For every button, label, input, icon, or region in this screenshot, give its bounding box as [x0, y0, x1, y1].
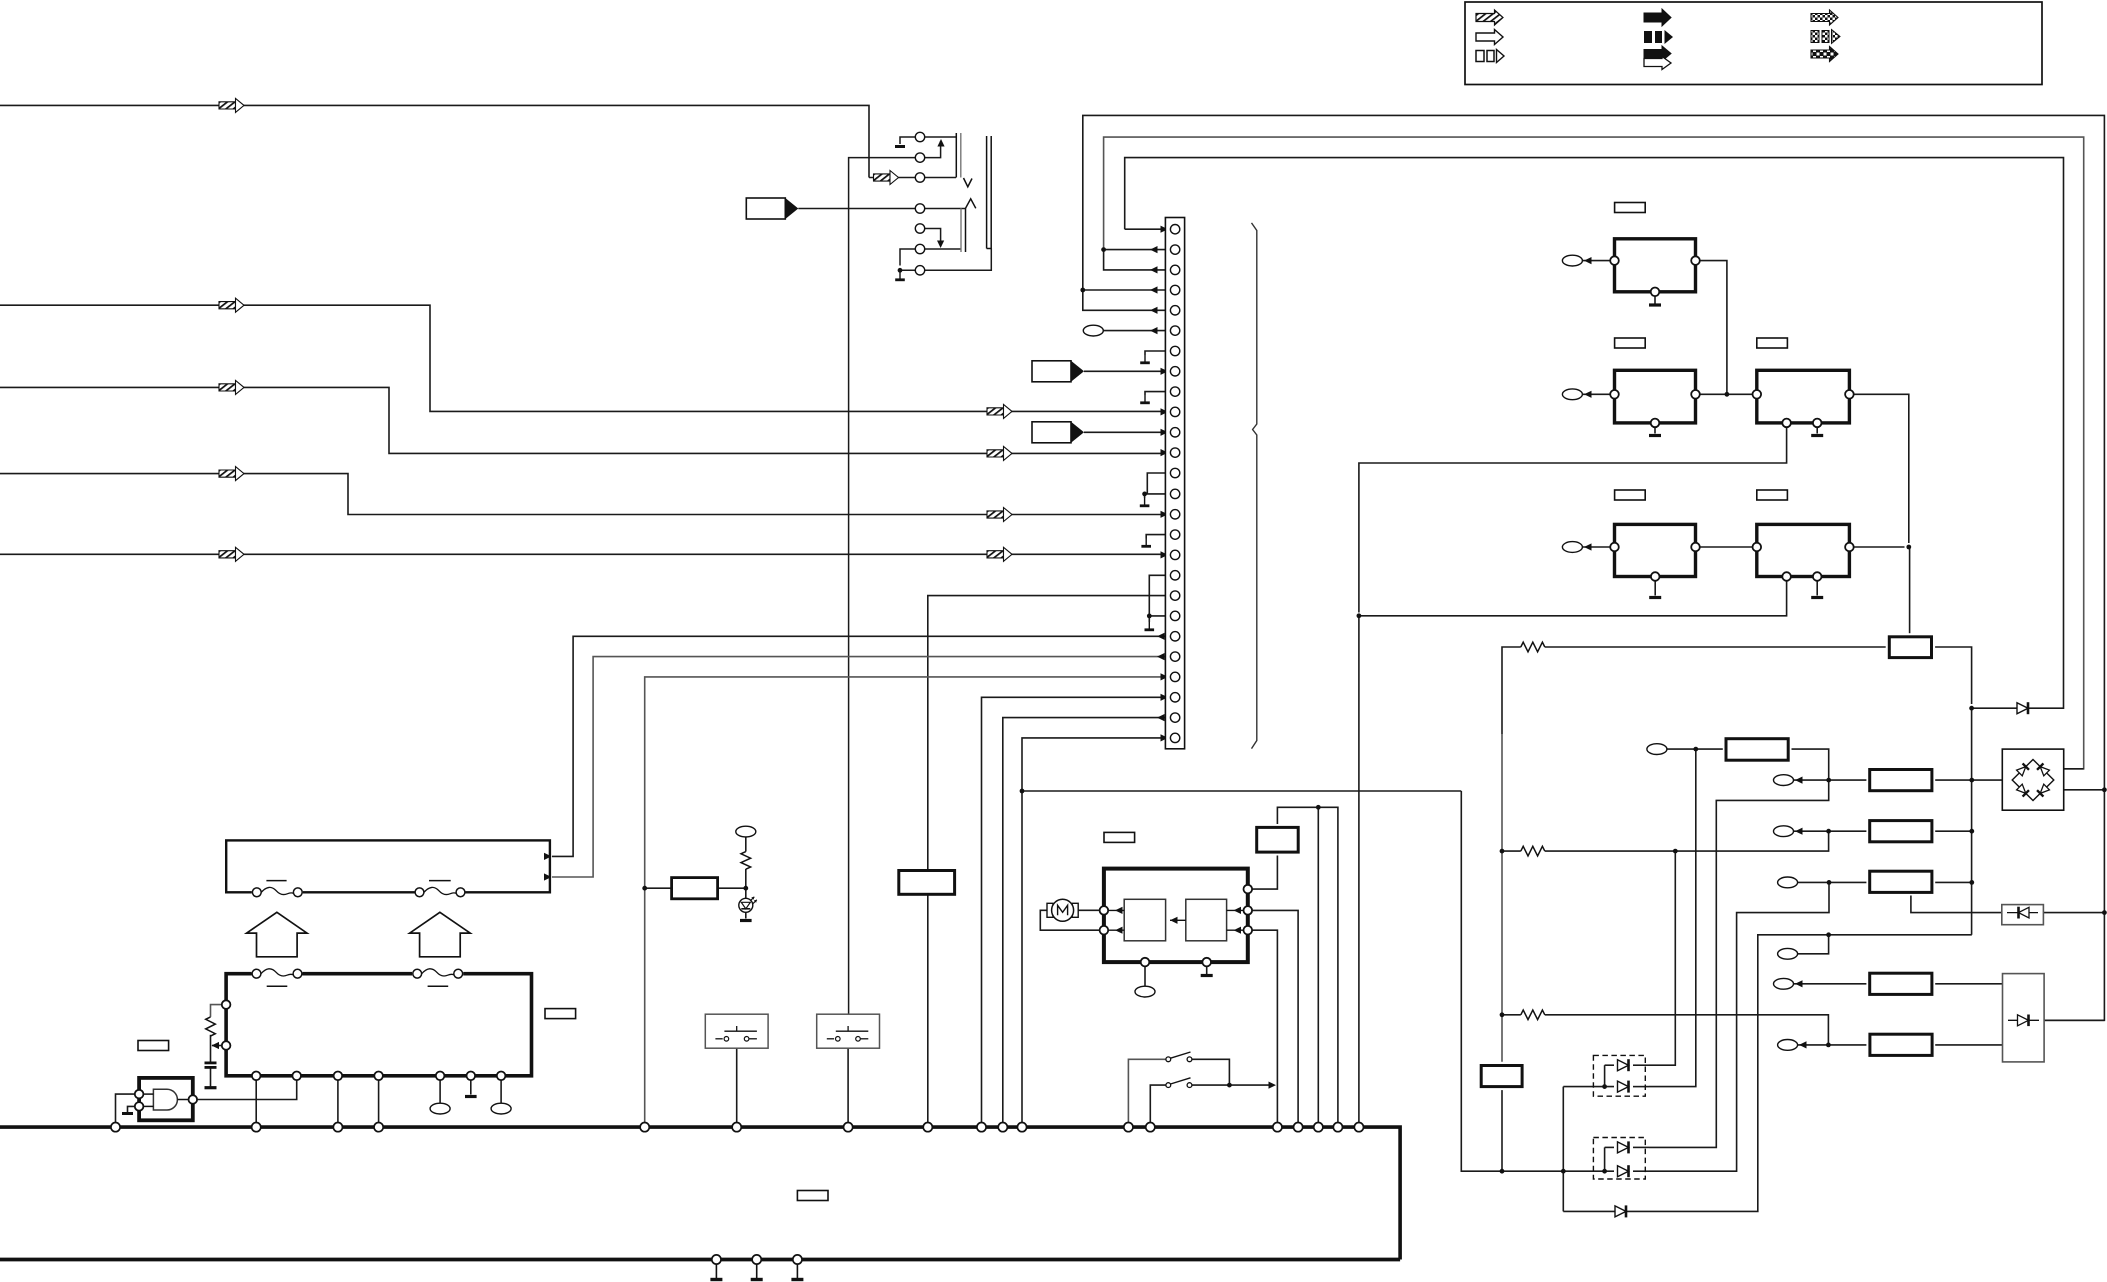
module MM inner box A [1124, 899, 1165, 941]
bridge diode top-left [2016, 763, 2029, 776]
wire node branch to bus [1317, 807, 1319, 1122]
wire pin8 from tag T1 [1084, 370, 1170, 372]
bottom edge circle 1 [712, 1255, 721, 1264]
module M2 right terminal [1691, 390, 1700, 399]
wire L2 pin1 to RC [211, 1005, 223, 1017]
fuse F2 label line [429, 880, 451, 882]
capacitor C1 plates [205, 1062, 217, 1065]
AND gate terminal in2 [135, 1102, 144, 1111]
fuse F4 label line [428, 985, 449, 987]
bridge diode top-right [2037, 763, 2050, 776]
arrow into pin17 [1161, 551, 1169, 558]
wire pin2 entry [1104, 249, 1171, 251]
wire diode D1 node vertical [1971, 708, 1973, 935]
ground stem below bottom circle 2 [756, 1264, 758, 1278]
arrow on pin22 wire [1157, 653, 1165, 660]
arrow into L1 right pin1 [544, 853, 552, 860]
diode D1 [2017, 702, 2028, 714]
wire dashed box DB1 upper diode out [1649, 851, 1675, 1065]
arrow into pin26 [1161, 734, 1169, 741]
wire S1 contact1 to bar [924, 136, 956, 138]
ground below module M1 [1649, 303, 1661, 306]
label L4 above module M4 [1615, 490, 1646, 500]
arrow into pin12 [1161, 449, 1169, 456]
S1 chevron V break [964, 178, 973, 187]
ground at pin9 [1140, 395, 1150, 403]
bus circle 4 [374, 1123, 383, 1132]
ground at pin16 [1141, 539, 1151, 547]
resistor RA [1726, 739, 1788, 761]
ground stem below bottom circle 1 [715, 1264, 717, 1278]
junction row C at 1829 [1827, 880, 1832, 885]
diode D2 bottom [1615, 1205, 1626, 1217]
bottom edge circle 2 [752, 1255, 761, 1264]
legend arrow coarse check (wire type 9) [1811, 47, 1838, 62]
diode DY inside (pointing right) [2008, 1019, 2039, 1021]
L2 bottom terminal 7 [497, 1072, 506, 1081]
S1 moving bar B [960, 208, 962, 252]
hollow up arrow UA1 [247, 912, 307, 957]
wire node bottom hook [1563, 935, 1972, 1212]
bottom board box outline [0, 1127, 1400, 1259]
arrow on pin25 wire [1157, 714, 1165, 721]
brace right of connector [1252, 223, 1257, 749]
L2 bottom terminal 5 [436, 1072, 445, 1081]
S1 contact 7 [915, 266, 924, 275]
hatch arrow on W3 [219, 380, 244, 394]
wire zigzag Z3 run [1502, 1014, 1521, 1016]
ellipse at pin6 [1083, 325, 1103, 336]
arrow on pin5 wire [1150, 307, 1158, 314]
S1 contact 5 [915, 224, 924, 233]
wire capacitor to ground [210, 1067, 212, 1086]
wire pin11 from tag T2 [1084, 431, 1170, 433]
bus circle 11 [1017, 1123, 1026, 1132]
wire pin14 to ground [1145, 494, 1171, 498]
wire L2 bottom pin3 to bus [337, 1081, 339, 1123]
bus circle 13 [1146, 1123, 1155, 1132]
resistor RM [1257, 827, 1299, 852]
junction collector at RT lead [1500, 1169, 1505, 1174]
module M1 bottom terminal [1651, 288, 1660, 297]
legend arrow fine check (wire type 7) [1811, 10, 1838, 25]
bus circle 10 [998, 1123, 1007, 1132]
legend arrow hatched (wire type 1) [1476, 10, 1503, 25]
L2 bottom terminal 4 [374, 1072, 383, 1081]
L2 bottom terminal 3 [334, 1072, 343, 1081]
diode box DBY (lower) [2003, 974, 2045, 1062]
resistor row A [1870, 770, 1932, 791]
module MM bottom terminal 2 [1202, 958, 1211, 967]
bottom board bottom edge [0, 1258, 1400, 1262]
wire row A: ellipse to resistor to bridge [1794, 779, 1867, 781]
label above motor module [1104, 832, 1135, 842]
wire module MM bottom pin2 to ground [1206, 966, 1208, 974]
fuse F2 on L1 bottom edge [415, 887, 466, 898]
bus circle 1 [111, 1123, 120, 1132]
wire gray vertical feed [1501, 734, 1503, 1062]
arrow into pin24 [1161, 694, 1169, 701]
wire module M3 out to right [1854, 394, 1909, 543]
wire pushbutton PB2 to bus [847, 1048, 849, 1122]
ellipse below L2 pin7 [491, 1103, 511, 1114]
junction pin2 wire [1101, 247, 1106, 252]
wire ellipse E2 to module M2 [1582, 393, 1610, 395]
module M1 (thick box) [1615, 239, 1696, 292]
junction toggles [1227, 1083, 1232, 1088]
wire module MM right pin3 to bus [1252, 930, 1278, 1122]
wire L2 bottom pin1 to bus [255, 1081, 257, 1123]
wire pin6 from ellipse [1103, 330, 1170, 332]
resistor RL vertical zigzag [741, 852, 751, 870]
arrow on pin2 wire [1150, 246, 1158, 253]
ellipse row B with arrow [1774, 826, 1794, 837]
wire long vertical to bus from hooks [1358, 616, 1360, 1123]
bus circle 6 [732, 1123, 741, 1132]
junction DB1 bracket [1602, 1084, 1607, 1089]
legend arrow check squares (wire type 8) [1811, 30, 1840, 44]
arrow toggle TS2 to vertical [1269, 1082, 1277, 1089]
junction hook at vertical [1357, 613, 1362, 618]
legend arrow double solid over open (wire type 6) [1644, 46, 1671, 70]
junction DB2 bracket [1602, 1169, 1607, 1174]
wire pin17 stub [1161, 554, 1171, 556]
SECTION-BOTTOMLEFT [645, 807, 1338, 1122]
wire S1 contact2 right with up arrow [924, 141, 940, 158]
SECTION-SWITCH [552, 115, 2104, 1122]
bridge rectifier BR box [2002, 749, 2063, 810]
bus circle 9 [977, 1123, 986, 1132]
module MM internal arrow between boxes [1170, 919, 1186, 921]
junction LED feed vertical [642, 886, 647, 891]
diode DB1 lower [1618, 1081, 1629, 1093]
module M4 right terminal [1691, 543, 1700, 552]
pushbutton PB2 box [817, 1014, 880, 1048]
ground at AND input2 [122, 1112, 133, 1115]
hatch arrow on W5 [219, 547, 244, 561]
label L3 above module M3 [1757, 338, 1788, 348]
wire W1 (input 1) [0, 105, 869, 177]
module M2 (thick box) [1615, 370, 1696, 423]
module MM left terminal 1 [1100, 906, 1109, 915]
module MM right terminal 3 [1244, 926, 1253, 935]
module M3 bottom terminal 2 [1813, 419, 1822, 428]
wire dashed box DB1 bracket [1604, 1065, 1606, 1086]
wire toggle TS1 right to junction [1192, 1059, 1230, 1085]
arrow into pin23 [1161, 673, 1169, 680]
ellipse EA [1647, 744, 1667, 755]
ellipse row D [1778, 948, 1798, 959]
tag flag T2 feeding pin11 [1032, 422, 1084, 443]
bus circle 7 [844, 1123, 853, 1132]
junction DBX right on far vertical [2102, 910, 2107, 915]
wire W4 (input 4) to pin15 [0, 474, 1161, 515]
resistor R LED feed [672, 878, 718, 899]
wire pin18 to ground [1149, 575, 1170, 622]
L2 left terminal 2 [222, 1041, 231, 1050]
hatch arrow into S1 contact3 [874, 171, 899, 185]
wire S1 contact1 to ground [900, 137, 916, 144]
wire module M2 ground lead [1654, 426, 1656, 433]
wire L2 bottom pin6 to ground [470, 1081, 472, 1095]
wire module M5 bottom hook [1359, 581, 1787, 616]
diode DB2 upper [1618, 1141, 1629, 1153]
label L2 above module M2 [1615, 338, 1646, 348]
ellipse below L2 pin5 [430, 1103, 450, 1114]
hatch arrow on W2 near connector [987, 404, 1012, 418]
bus circle 17 [1333, 1123, 1342, 1132]
ground below capacitor C1 [205, 1086, 217, 1089]
arrow into pin15 [1161, 511, 1169, 518]
wire pin3 entry [1104, 250, 1171, 270]
motor module MM thick box [1104, 869, 1248, 963]
wire S1 contact7 left to ground [900, 270, 916, 272]
wire RC resistor to junction [210, 1035, 212, 1062]
wire collector feed from pin26 chain [1022, 790, 1461, 792]
arrow at RC junction [212, 1042, 220, 1049]
ground below LED [740, 919, 752, 922]
down arrow at S1 contact5 [937, 241, 944, 249]
wire AND input1 to bus [116, 1094, 136, 1122]
connector CN1 body [1165, 218, 1184, 749]
wire row E: ellipse to resistor to diode box DBY [1794, 983, 1867, 985]
wire S1 contact2 left to long vertical [849, 158, 916, 1015]
junction Z2 at 1675 [1673, 849, 1678, 854]
wire zigzag Z2 run [1502, 850, 1521, 852]
hatch arrow on W4 near connector [987, 508, 1012, 522]
wire row C: ellipse to resistor [1798, 881, 1867, 883]
module M4 bottom terminal [1651, 572, 1660, 581]
label L1 above module M1 [1615, 203, 1646, 213]
wire S1 hatched arrow feed [869, 177, 874, 179]
wire LED feed resistor row [645, 887, 672, 889]
hatch arrow on W5 near connector [987, 547, 1012, 561]
bridge diode bottom-left [2016, 784, 2029, 797]
wire pin23 chain to bus [645, 677, 1171, 1123]
AND gate output stub [178, 1099, 190, 1101]
ellipse E3 with arrow [1562, 542, 1582, 553]
junction row B at 1828 [1826, 829, 1831, 834]
resistor row E [1870, 973, 1932, 994]
wire module M4 ground lead [1654, 581, 1656, 596]
fuse F3 label line [267, 985, 288, 987]
ground at S1 contact1 [895, 145, 905, 148]
legend arrow solid black (wire type 4) [1644, 9, 1671, 26]
module MM left terminal 2 [1100, 926, 1109, 935]
wire dashed box DB2 upper diode internals [1605, 1146, 1614, 1148]
legend arrow two open squares (wire type 3) [1476, 50, 1504, 63]
AND gate input stubs [143, 1093, 153, 1095]
junction RA left node [1693, 747, 1698, 752]
ground stem below bottom circle 3 [796, 1264, 798, 1278]
wire pushbutton PB1 to bus [736, 1048, 738, 1122]
diode box DBX (upper) [2002, 905, 2044, 925]
module M3 (thick box) [1757, 370, 1850, 423]
diode DB2 lower [1618, 1165, 1629, 1177]
L2 bottom terminal 6 [467, 1072, 476, 1081]
SECTION-TOPRIGHT [1022, 734, 2104, 1211]
wire L2 bottom pin5 to ellipse [439, 1081, 441, 1104]
label rect inside bottom board [797, 1191, 828, 1201]
resistor row C [1870, 871, 1932, 892]
module M4 left terminal [1610, 543, 1619, 552]
wire zigzag Z1 run [1502, 647, 1521, 734]
wire pin5 entry [1083, 290, 1171, 310]
wire L2 bottom pin2 to AND out [198, 1081, 297, 1100]
ground at S1 contact7 [895, 272, 905, 280]
diode DX inside (pointing left) [2007, 912, 2038, 914]
module M5 right terminal [1845, 543, 1854, 552]
junction LED node [743, 886, 748, 891]
module L1 (wide box) [226, 840, 550, 892]
resistor zigzag Z1 [1521, 642, 1545, 652]
bus circle 14 [1273, 1123, 1282, 1132]
module M3 right terminal [1845, 390, 1854, 399]
wire pin13 hook [1147, 473, 1170, 494]
ellipse E1 with arrow [1562, 255, 1582, 266]
LED D3 [739, 897, 757, 913]
AND gate terminal out [189, 1095, 198, 1104]
arrow into pin10 [1161, 408, 1169, 415]
wire diode box DBY right to far vertical [2044, 1019, 2104, 1021]
junction row A node [1969, 778, 1974, 783]
wire RA node vertical to dashed diode box DB1 [1649, 749, 1696, 1087]
wire module MM right pin2 to bus [1252, 910, 1298, 1122]
wire S1 contact5 with down arrow [924, 229, 940, 247]
label rect left of L2 [138, 1041, 169, 1051]
diode DB1 upper [1618, 1059, 1629, 1071]
label rect right of L2 [545, 1009, 576, 1019]
bus circle 2 [252, 1123, 261, 1132]
wire W3 (input 3) to pin12 [0, 387, 1161, 453]
wire bridge BR right top out [2064, 768, 2084, 770]
hatch arrow on W3 near connector [987, 446, 1012, 460]
junction pin20 wire [1147, 614, 1152, 619]
ground below module M5 [1811, 596, 1823, 599]
S1 common bar [986, 136, 988, 249]
wire ellipse E1 to module M1 [1582, 260, 1610, 262]
fuse F1 label line [266, 880, 286, 882]
resistor zigzag Z2 [1521, 846, 1545, 856]
wire AND input2 to ground [128, 1106, 136, 1112]
hatch arrow on W4 [219, 467, 244, 481]
junction row A at 1828 [1826, 778, 1831, 783]
wire resistor RM top node [1277, 807, 1338, 1122]
wire dashed box DB1 internals [1605, 1064, 1614, 1066]
junction M1-M3 [1725, 392, 1730, 397]
hollow up arrow UA2 [410, 912, 471, 957]
bus circle 8 [923, 1123, 932, 1132]
AND gate box [139, 1078, 193, 1120]
wire bridge BR right bottom out [2064, 789, 2105, 791]
module MM inner box B [1186, 899, 1227, 941]
wire motor loop [1040, 910, 1100, 930]
ground below module M4 [1649, 596, 1661, 599]
bus circle 12 [1124, 1123, 1133, 1132]
resistor RV vertical zigzag [206, 1017, 216, 1036]
wire RT bottom lead [1501, 1090, 1503, 1171]
junction row F at 1828 [1826, 1043, 1831, 1048]
wire module MM bottom pin1 to ellipse [1144, 966, 1146, 986]
wire pin1 entry [1125, 228, 1171, 230]
arrow on pin3 wire [1150, 266, 1158, 273]
module M3 bottom terminal 1 [1782, 419, 1791, 428]
legend frame [1465, 2, 2042, 85]
arrow into pin8 [1161, 368, 1169, 375]
junction RM node [1316, 805, 1321, 810]
wire vertical via [1562, 1087, 1564, 1212]
wire S1 contact3 right [924, 177, 956, 179]
module MM bottom terminal 1 [1141, 958, 1150, 967]
fuse F3 on L2 top edge [252, 967, 303, 980]
wire module M1 ground lead [1654, 296, 1656, 303]
AND gate symbol [153, 1089, 177, 1110]
ground below L2 pin6 [465, 1095, 477, 1098]
tag flag T1 feeding pin8 [1032, 361, 1084, 382]
module L2 (wide thick box) [226, 974, 531, 1076]
wire S1 contact7 right to common bar [924, 249, 991, 271]
arrow on pin4 wire [1150, 286, 1158, 293]
module M5 (thick box) [1757, 524, 1850, 576]
wire top T3 [1125, 158, 2064, 709]
arrow on pin6 wire [1150, 327, 1158, 334]
junction row C node [1969, 880, 1974, 885]
wire row B right to node [1935, 830, 1972, 832]
module M5 bottom terminal 1 [1782, 572, 1791, 581]
S1 contact 4 [915, 204, 924, 213]
module M3 left terminal [1753, 390, 1762, 399]
bus circle 15 [1294, 1123, 1303, 1132]
junction diode D1 node [1969, 706, 1974, 711]
ellipse row A with arrow [1774, 775, 1794, 786]
arrow into pin11 [1161, 429, 1169, 436]
L2 left terminal 1 [222, 1000, 231, 1009]
wire junction to small rect RS [1909, 547, 1911, 633]
bus circle 18 [1354, 1123, 1363, 1132]
fuse F1 on L1 bottom edge [252, 887, 303, 898]
wire row C branch down-left [1649, 882, 1829, 1171]
wire L2 bottom pin4 to bus [378, 1081, 380, 1123]
wire small rect RS to diode D1 [1935, 647, 1972, 704]
wire pin7 to ground [1145, 351, 1170, 355]
legend arrow two filled squares (wire type 5) [1644, 30, 1673, 44]
module M5 left terminal [1753, 543, 1762, 552]
wire row B: ellipse to resistor [1794, 830, 1867, 832]
wire toggle TS2 left to bus [1150, 1085, 1166, 1122]
ellipse above LED [736, 826, 756, 837]
L2 bottom terminal 1 [252, 1072, 261, 1081]
wire pin12 stub [1161, 452, 1171, 454]
motor MT symbol [1047, 899, 1078, 921]
ellipse row E with arrow [1774, 978, 1794, 989]
S1 contact 3 [915, 173, 924, 182]
wire top T1 [1083, 115, 2105, 1020]
junction M3/M5 right [1906, 545, 1911, 550]
ground below module M2 [1649, 434, 1661, 437]
module M1 left terminal [1610, 256, 1619, 265]
SECTION-CONNECTOR [1359, 261, 1972, 1123]
wire pin24 chain to bus [982, 697, 1171, 1122]
wire RA right chain [1649, 749, 1829, 1147]
dashed diode box DB2 [1593, 1138, 1645, 1180]
wire module M2 out to module M3 [1700, 393, 1753, 395]
resistor row B [1870, 821, 1932, 842]
ground below module MM [1201, 974, 1213, 977]
junction pin4 wire [1080, 288, 1085, 293]
wire dashed box DB2 bracket [1604, 1147, 1606, 1171]
wire module M5 out to junction [1854, 546, 1905, 548]
tag flag T0 feeding S1 contact4 [746, 198, 798, 219]
